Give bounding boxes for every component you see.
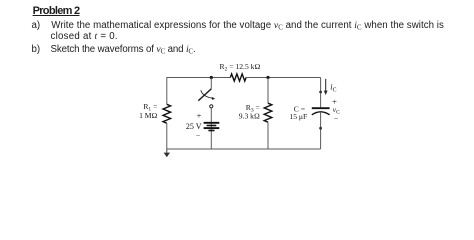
wire right vertical lower: [320, 112, 322, 149]
item a line 2: [51, 31, 118, 42]
node R3-top junction: [266, 76, 269, 79]
item b marker: [32, 44, 41, 55]
switch closing arrow: [201, 90, 213, 98]
svg-text:−: −: [196, 131, 200, 140]
wire right vertical upper: [320, 78, 322, 108]
wire R3 branch lower: [267, 122, 269, 149]
heading Problem 2: [33, 5, 80, 17]
wire left vertical upper: [166, 77, 168, 104]
wire bottom: [167, 148, 321, 150]
svg-text:−: −: [334, 114, 338, 123]
switch blade: [198, 89, 211, 101]
svg-text:R2 = 12.5 kΩ: R2 = 12.5 kΩ: [220, 62, 261, 73]
node switch-top junction: [210, 76, 213, 79]
wire left vertical lower: [166, 123, 168, 149]
current iC arrow: [325, 79, 327, 92]
resistor R2: [230, 74, 246, 81]
svg-text:1 MΩ: 1 MΩ: [139, 111, 157, 120]
wire top right segment: [246, 77, 321, 79]
capacitor C plate top: [312, 107, 330, 109]
node capacitor top terminal: [319, 91, 322, 94]
item b text: [51, 44, 196, 55]
node capacitor bottom terminal: [319, 127, 322, 130]
svg-text:9.3 kΩ: 9.3 kΩ: [239, 112, 260, 121]
switch contact: [210, 105, 213, 108]
wire R3 branch upper: [267, 78, 269, 104]
wire switch branch upper: [210, 78, 212, 89]
svg-text:15 μF: 15 μF: [289, 112, 307, 121]
svg-text:iC: iC: [330, 83, 336, 94]
wire switch to battery: [210, 108, 212, 149]
svg-text:+: +: [197, 112, 202, 121]
resistor R3: [264, 103, 272, 122]
capacitor C plate bottom curved: [312, 112, 330, 115]
battery E plates: [204, 122, 220, 124]
wire top left segment: [167, 77, 231, 79]
ground: [166, 149, 168, 153]
item a line 1: [51, 20, 444, 31]
svg-text:25 V: 25 V: [186, 122, 202, 131]
resistor R1: [163, 104, 171, 123]
item a marker: [32, 20, 41, 31]
